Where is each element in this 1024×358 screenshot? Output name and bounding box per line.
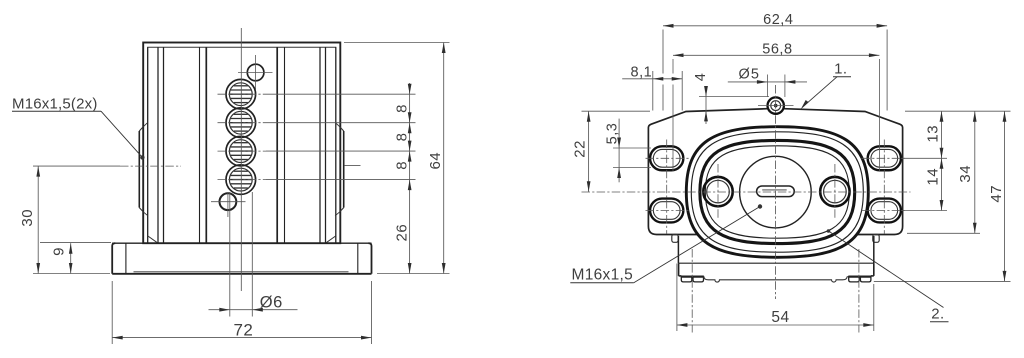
svg-text:72: 72 bbox=[233, 320, 253, 339]
svg-text:13: 13 bbox=[925, 125, 942, 143]
svg-text:47: 47 bbox=[988, 185, 1005, 203]
svg-text:5,3: 5,3 bbox=[605, 123, 621, 145]
svg-text:2.: 2. bbox=[931, 306, 945, 323]
svg-text:Ø5: Ø5 bbox=[739, 67, 761, 83]
svg-text:8: 8 bbox=[393, 104, 410, 113]
svg-text:1.: 1. bbox=[834, 60, 848, 77]
svg-text:62,4: 62,4 bbox=[763, 12, 793, 28]
svg-text:54: 54 bbox=[771, 309, 789, 326]
svg-text:8: 8 bbox=[393, 132, 410, 141]
svg-text:9: 9 bbox=[50, 247, 67, 256]
svg-text:Ø6: Ø6 bbox=[260, 294, 283, 312]
svg-text:64: 64 bbox=[427, 152, 444, 170]
svg-text:4: 4 bbox=[693, 73, 709, 82]
svg-text:34: 34 bbox=[957, 165, 974, 183]
svg-text:22: 22 bbox=[572, 140, 589, 158]
svg-text:8,1: 8,1 bbox=[631, 64, 653, 80]
svg-text:30: 30 bbox=[19, 209, 36, 227]
svg-text:56,8: 56,8 bbox=[762, 42, 792, 58]
svg-text:M16x1,5(2x): M16x1,5(2x) bbox=[12, 96, 98, 113]
svg-text:26: 26 bbox=[393, 224, 410, 242]
svg-text:14: 14 bbox=[925, 168, 942, 186]
svg-text:8: 8 bbox=[393, 161, 410, 170]
svg-text:M16x1,5: M16x1,5 bbox=[572, 267, 634, 284]
